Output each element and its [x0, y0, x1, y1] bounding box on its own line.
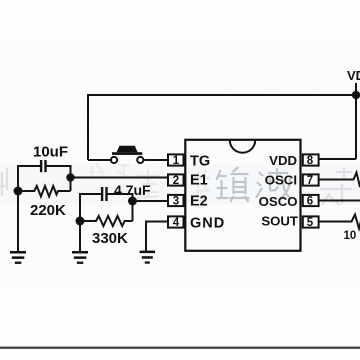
svg-text:6: 6 — [307, 196, 313, 208]
svg-text:220K: 220K — [30, 202, 66, 219]
svg-text:3: 3 — [173, 196, 179, 208]
svg-text:TG: TG — [190, 154, 210, 170]
svg-text:1: 1 — [173, 155, 180, 167]
svg-text:8: 8 — [307, 155, 314, 167]
svg-text:OSCO: OSCO — [259, 194, 298, 209]
svg-text:E2: E2 — [190, 194, 208, 210]
svg-text:10uF: 10uF — [33, 144, 68, 161]
svg-text:VDD: VDD — [269, 153, 297, 168]
svg-text:SOUT: SOUT — [261, 213, 298, 228]
svg-text:GND: GND — [190, 216, 225, 232]
svg-text:7: 7 — [307, 175, 313, 187]
svg-text:VDD: VDD — [347, 68, 360, 83]
svg-text:4: 4 — [173, 217, 180, 229]
svg-text:OSCI: OSCI — [265, 172, 297, 187]
svg-text:2: 2 — [173, 175, 179, 187]
svg-text:330K: 330K — [92, 230, 128, 247]
svg-text:4.7uF: 4.7uF — [114, 182, 151, 198]
svg-text:10: 10 — [344, 230, 357, 242]
svg-text:E1: E1 — [190, 173, 208, 189]
svg-text:5: 5 — [307, 217, 314, 229]
